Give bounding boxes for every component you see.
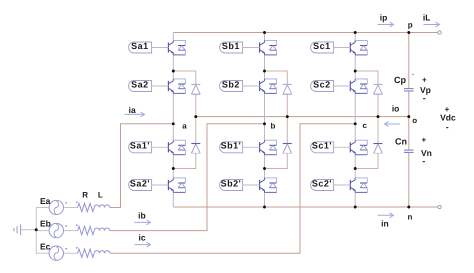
junction m2 a	[172, 167, 175, 170]
svg-text:Eb: Eb	[40, 219, 51, 229]
inductor L phase b	[94, 228, 110, 231]
gate tag Sa1'	[129, 141, 169, 153]
arrow ip	[378, 22, 394, 27]
wire dc link vertical	[408, 33, 410, 208]
svg-text:Sb2': Sb2'	[221, 178, 242, 188]
junction clamp-o a	[194, 115, 197, 118]
svg-text:c: c	[362, 121, 367, 130]
wire m2 jog phase b	[265, 154, 288, 169]
source Eb (AC voltage source)	[49, 223, 63, 237]
junction m1 b	[263, 70, 266, 73]
svg-text:R: R	[82, 191, 88, 200]
node c	[354, 122, 357, 125]
gate tag Sc2	[311, 79, 351, 91]
wire m2 jog phase a	[173, 154, 196, 169]
svg-text:a: a	[182, 122, 187, 131]
junction m1 a	[172, 70, 175, 73]
gate tag Sc1	[311, 41, 351, 53]
gate tag Sa2	[129, 79, 169, 91]
svg-text:Vdc: Vdc	[440, 113, 456, 123]
wire clamp mid phase c	[377, 94, 379, 143]
capacitor Cn	[404, 150, 414, 152]
wire bottom rail n	[173, 206, 439, 208]
transistor Sc1' (IGBT with antiparallel diode)	[350, 140, 367, 155]
node a	[172, 122, 175, 125]
junction top rail c	[354, 31, 357, 34]
diode clamp lower phase c	[374, 144, 383, 154]
resistor R phase c	[78, 249, 95, 257]
svg-text:Sb1: Sb1	[222, 41, 240, 51]
gate tag Sa1	[129, 41, 169, 53]
transistor Sa1 (IGBT with antiparallel diode)	[168, 40, 185, 55]
junction m2 c	[354, 167, 357, 170]
node ground	[35, 228, 38, 231]
svg-text:n: n	[408, 213, 413, 222]
node n	[407, 206, 410, 209]
inductor L phase a	[94, 205, 110, 208]
transistor Sa1' (IGBT with antiparallel diode)	[168, 140, 185, 155]
transistor Sc2 (IGBT with antiparallel diode)	[350, 79, 367, 94]
inductor L phase c	[94, 251, 110, 254]
diode clamp upper phase a	[191, 84, 200, 94]
svg-text:ia: ia	[129, 105, 136, 115]
diode clamp lower phase b	[283, 144, 292, 154]
source Ec terminal marks	[65, 248, 67, 250]
wire leg a vertical segments	[172, 33, 174, 208]
svg-text:-: -	[422, 156, 425, 166]
junction bottom rail c	[354, 206, 357, 209]
node p	[407, 31, 410, 34]
svg-text:b: b	[270, 121, 275, 130]
diode clamp upper phase b	[283, 84, 292, 94]
capacitor Cp	[404, 74, 414, 91]
terminal p output (open circle)	[438, 31, 441, 34]
source Eb terminal marks	[65, 225, 67, 227]
gate tag Sb2'	[220, 178, 260, 190]
gate tag Sb2	[220, 79, 260, 91]
transistor Sc2' (IGBT with antiparallel diode)	[350, 178, 367, 193]
wire m2 jog phase c	[355, 154, 378, 169]
svg-text:Sc2': Sc2'	[312, 178, 332, 188]
svg-text:ic: ic	[139, 233, 146, 243]
resistor R phase a	[78, 203, 95, 211]
wire phase c output routing	[110, 124, 355, 253]
gate tag Sb1	[220, 41, 260, 53]
wire clamp mid phase a	[195, 94, 197, 143]
source Ec (AC voltage source)	[49, 246, 63, 260]
svg-text:Cn: Cn	[395, 136, 407, 146]
wire m1 jog phase c	[355, 71, 378, 84]
node o	[407, 115, 410, 118]
arrow ib	[135, 220, 151, 225]
junction m1 c	[354, 70, 357, 73]
wire phase a output routing	[110, 124, 174, 208]
wire m1 jog phase b	[265, 71, 288, 84]
transistor Sb1 (IGBT with antiparallel diode)	[260, 40, 277, 55]
junction m2 b	[263, 167, 266, 170]
arrow io (points left)	[385, 122, 401, 127]
arrow ia	[125, 112, 145, 117]
svg-text:p: p	[408, 21, 413, 30]
svg-text:Sa1': Sa1'	[130, 141, 150, 151]
svg-text:Ea: Ea	[40, 196, 51, 206]
diode clamp upper phase c	[374, 84, 383, 94]
svg-text:Sb2: Sb2	[222, 79, 240, 89]
svg-text:L: L	[98, 191, 103, 200]
diode clamp lower phase a	[191, 144, 200, 154]
wire m1 jog phase a	[173, 71, 196, 84]
wire source common vertical	[35, 208, 37, 254]
wire ground lead	[21, 229, 36, 231]
svg-text:Sb1': Sb1'	[221, 141, 242, 151]
wire neutral o line	[196, 116, 409, 118]
wire source branch c leads	[36, 252, 77, 254]
svg-text:Sa1: Sa1	[131, 41, 149, 51]
svg-text:+: +	[422, 76, 427, 85]
transistor Sa2' (IGBT with antiparallel diode)	[168, 178, 185, 193]
transistor Sb2' (IGBT with antiparallel diode)	[260, 178, 277, 193]
svg-text:ip: ip	[380, 13, 388, 23]
wire clamp mid phase b	[286, 94, 288, 143]
svg-text:in: in	[381, 218, 389, 228]
ground	[14, 224, 21, 235]
svg-text:Ec: Ec	[40, 241, 51, 251]
transistor Sb1' (IGBT with antiparallel diode)	[260, 140, 277, 155]
svg-text:Sc1: Sc1	[313, 41, 331, 51]
wire leg c vertical segments	[354, 33, 356, 208]
wire leg b vertical segments	[264, 33, 266, 208]
svg-text:-: -	[446, 122, 449, 132]
junction top rail b	[263, 31, 266, 34]
svg-text:Sc2: Sc2	[313, 79, 331, 89]
gate tag Sb1'	[220, 141, 260, 153]
transistor Sc1 (IGBT with antiparallel diode)	[350, 40, 367, 55]
terminal n output (open circle)	[438, 205, 441, 208]
source Ea (AC voltage source)	[49, 200, 63, 214]
wire source branch b leads	[36, 230, 77, 232]
arrow ic	[135, 242, 151, 247]
wire phase b output routing	[110, 124, 265, 231]
node b	[263, 122, 266, 125]
source Ea terminal marks	[65, 202, 67, 204]
svg-text:+: +	[421, 136, 426, 145]
wire source branch a leads	[36, 207, 77, 209]
arrow in	[378, 213, 394, 218]
svg-text:Sa2: Sa2	[131, 79, 149, 89]
svg-text:ib: ib	[138, 211, 146, 221]
svg-text:io: io	[392, 103, 400, 113]
svg-text:Cp: Cp	[394, 75, 406, 85]
transistor Sa2 (IGBT with antiparallel diode)	[168, 79, 185, 94]
gate tag Sa2'	[129, 178, 169, 190]
junction bottom rail b	[263, 206, 266, 209]
svg-text:Sc1': Sc1'	[312, 141, 332, 151]
svg-text:Sa2': Sa2'	[130, 178, 150, 188]
transistor Sb2 (IGBT with antiparallel diode)	[260, 79, 277, 94]
gate tag Sc2'	[311, 178, 351, 190]
svg-text:iL: iL	[423, 13, 431, 23]
resistor R phase b	[78, 226, 95, 234]
svg-text:o: o	[412, 116, 417, 125]
svg-text:-: -	[423, 93, 426, 103]
junction clamp-o c	[377, 115, 380, 118]
arrow iL	[424, 22, 440, 27]
junction clamp-o b	[286, 115, 289, 118]
wire top rail p	[173, 32, 439, 34]
gate tag Sc1'	[311, 141, 351, 153]
